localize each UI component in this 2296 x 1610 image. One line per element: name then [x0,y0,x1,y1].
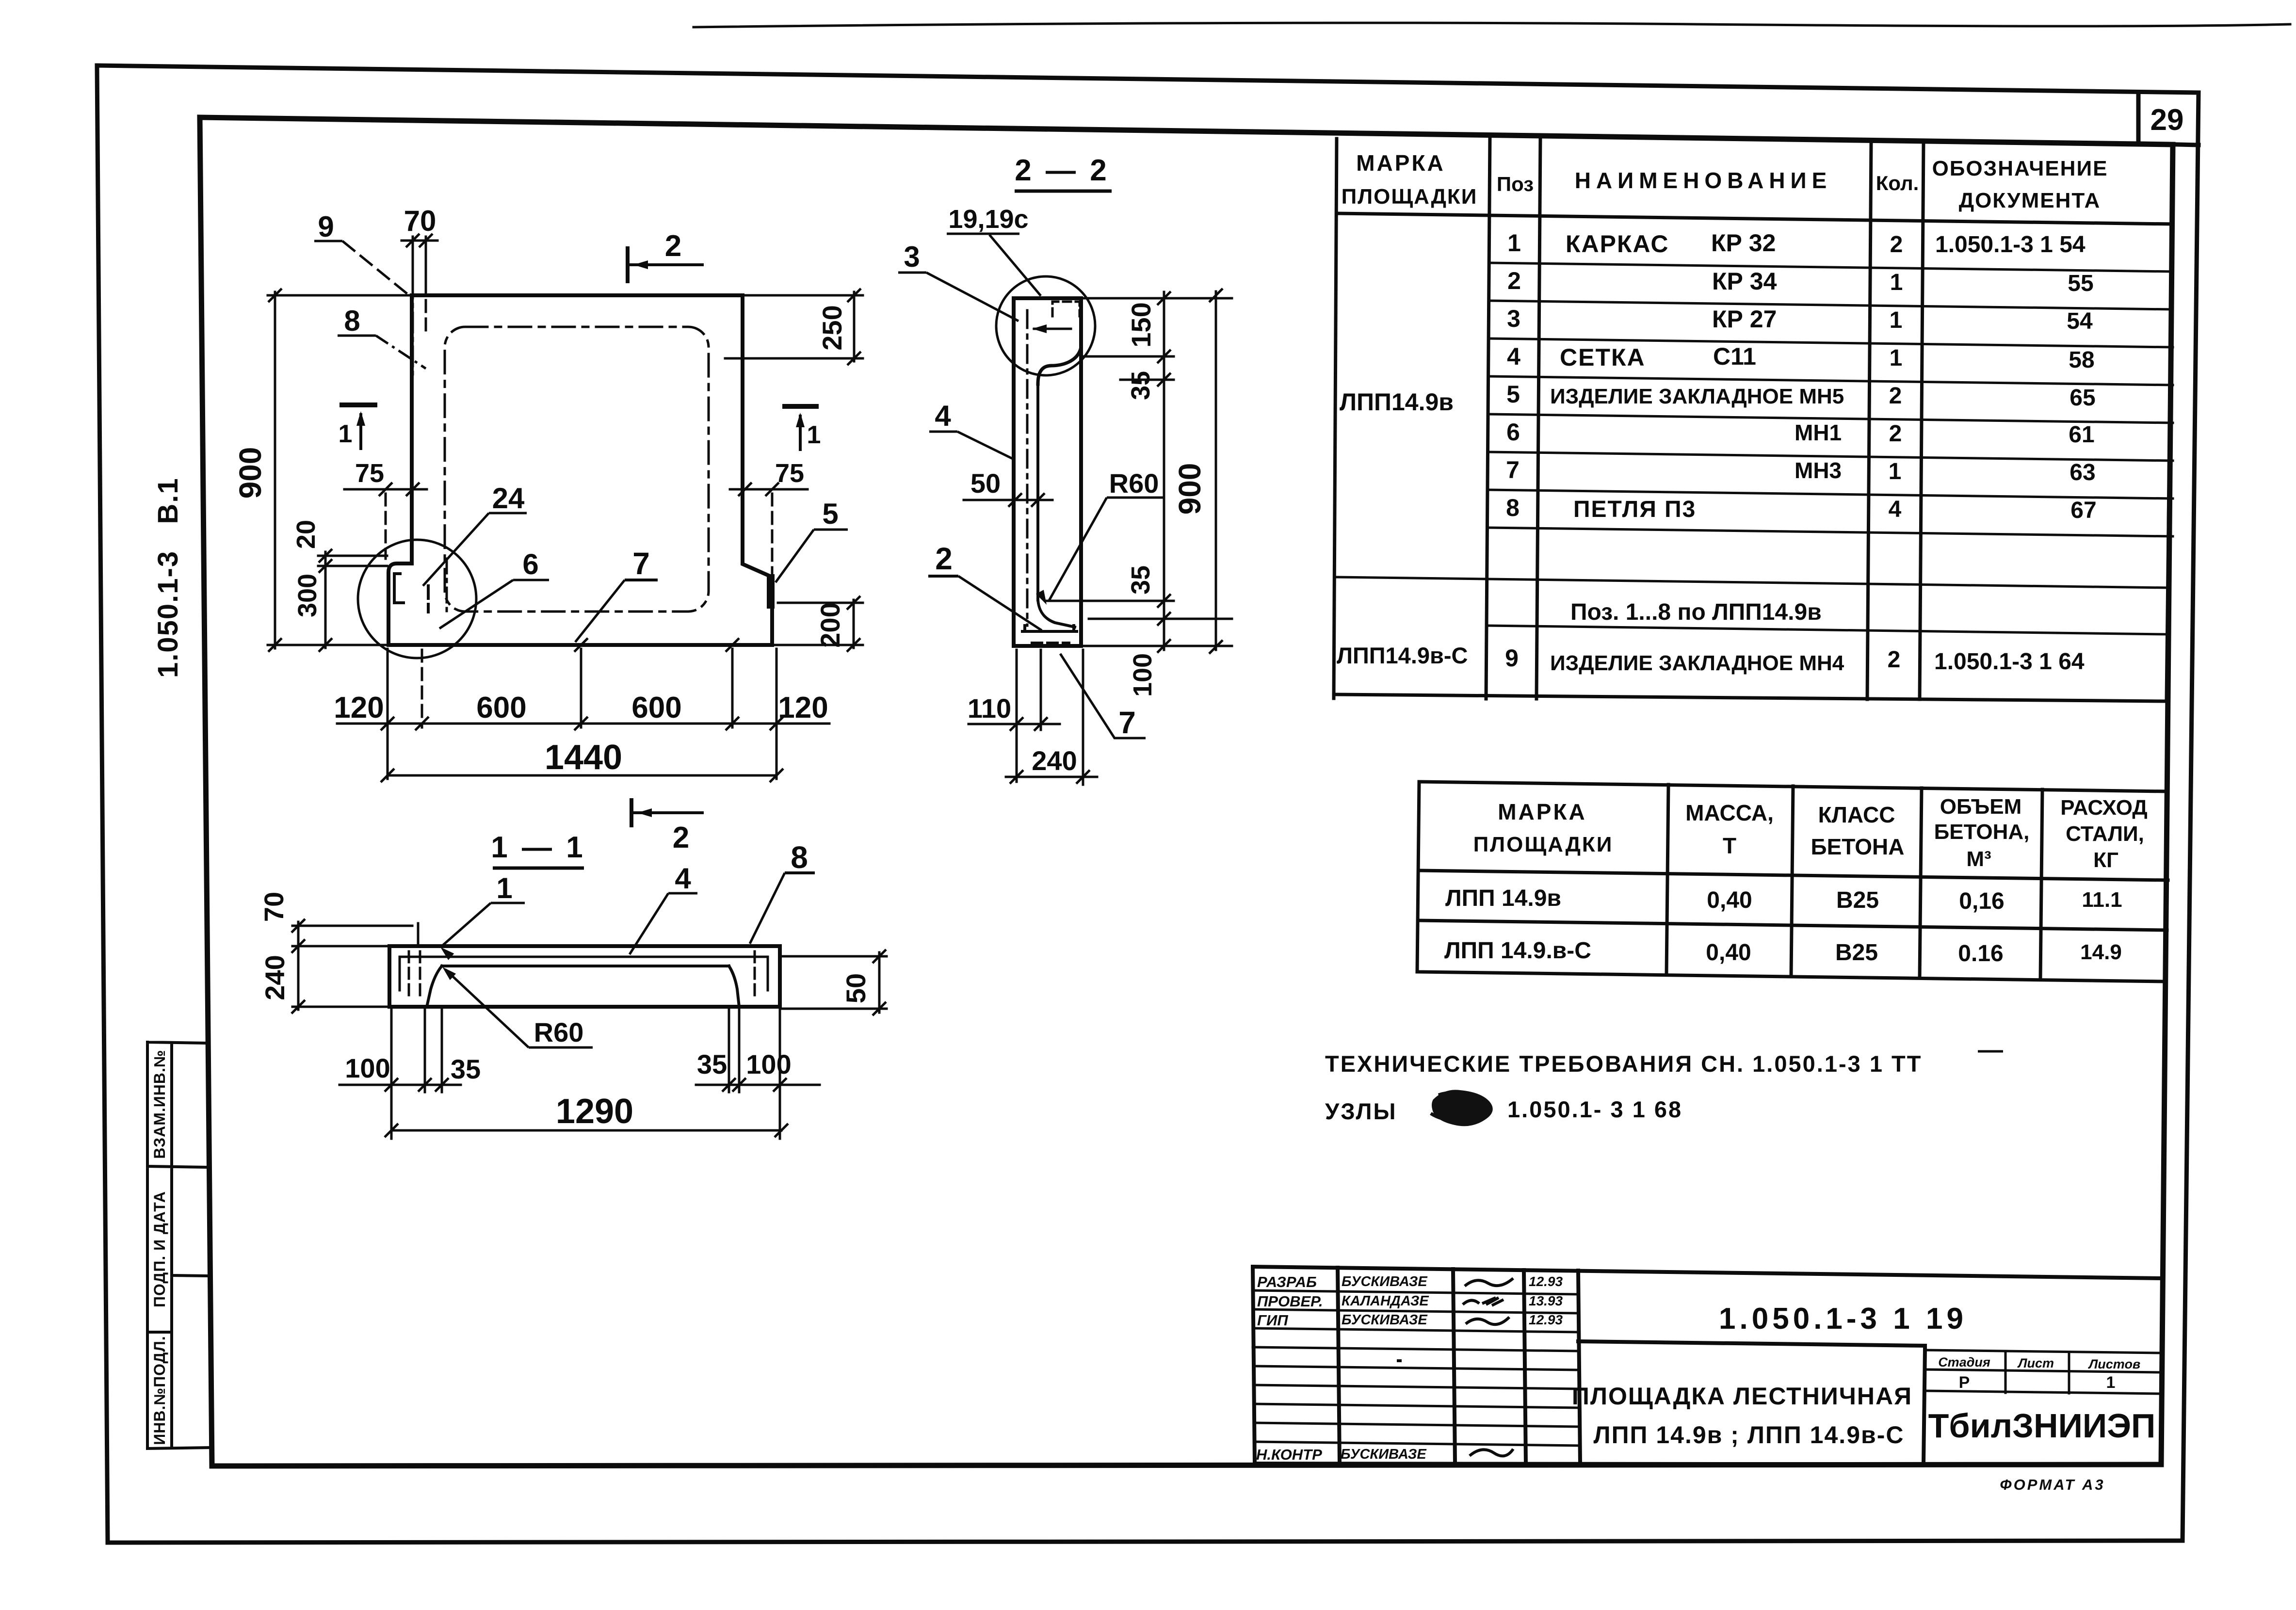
svg-text:300: 300 [293,574,322,617]
svg-text:7: 7 [632,546,650,581]
spec row line pos9 top [1487,626,2167,634]
svg-text:ПОДП. И ДАТА: ПОДП. И ДАТА [151,1191,168,1307]
svg-text:1440: 1440 [545,738,622,777]
spec table left edge [1334,139,1337,698]
svg-text:ЛПП 14.9в ; ЛПП 14.9в-С: ЛПП 14.9в ; ЛПП 14.9в-С [1594,1421,1905,1449]
svg-text:ИНВ.№ПОДЛ.: ИНВ.№ПОДЛ. [151,1336,168,1445]
svg-text:ЛПП 14.9в: ЛПП 14.9в [1445,885,1561,911]
svg-text:2: 2 [1889,383,1902,409]
thick bar item5 [767,578,775,605]
svg-text:МАССА,: МАССА, [1685,800,1774,825]
title block left edge [1253,1267,1255,1464]
dim 900 left: line and extensions [274,292,276,648]
svg-text:100: 100 [1128,653,1157,697]
svg-text:ПРОВЕР.: ПРОВЕР. [1257,1293,1323,1310]
bottom extensions [390,1009,393,1139]
svg-text:ОБОЗНАЧЕНИЕ: ОБОЗНАЧЕНИЕ [1932,157,2108,180]
svg-text:БЕТОНА,: БЕТОНА, [1934,820,2030,844]
svg-text:1: 1 [2106,1373,2116,1392]
svg-text:35: 35 [1126,371,1155,400]
fillet R60 [1038,600,1075,627]
svg-text:50: 50 [970,468,1001,499]
svg-text:М³: М³ [1966,847,1991,871]
signature table row lines [1253,1290,1578,1294]
svg-text:КАЛАНДАЗЕ: КАЛАНДАЗЕ [1342,1293,1429,1309]
dim 50 [964,499,1052,501]
svg-text:55: 55 [2068,271,2093,296]
spec table column Кол/Обозначение [1920,142,1924,699]
svg-text:ПЕТЛЯ П3: ПЕТЛЯ П3 [1573,497,1696,522]
svg-text:12.93: 12.93 [1529,1312,1563,1327]
mesh line item4 [400,957,768,990]
small dot in blank row [1397,1359,1402,1362]
svg-text:29: 29 [2150,103,2184,137]
svg-text:67: 67 [2070,498,2096,523]
svg-text:9: 9 [318,210,334,243]
svg-text:240: 240 [1032,745,1077,776]
dim 900 line [1215,291,1217,650]
section 2-2 outline [1014,298,1081,646]
svg-text:120: 120 [778,691,828,724]
svg-text:Т: Т [1723,833,1736,858]
svg-text:240: 240 [259,955,290,1000]
svg-text:ПЛОЩАДКА ЛЕСТНИЧНАЯ: ПЛОЩАДКА ЛЕСТНИЧНАЯ [1572,1383,1912,1410]
svg-text:ЛПП 14.9.в-С: ЛПП 14.9.в-С [1444,938,1591,964]
spec row line mark divider [1335,577,2168,588]
interior dash marks [427,586,430,612]
svg-text:0.16: 0.16 [1958,941,2003,966]
section 1-1 outline [389,946,780,1007]
svg-text:20: 20 [291,520,321,549]
spec table column Поз/Наименование [1536,137,1540,699]
title block outline top [1253,1267,2162,1278]
spec table bottom edge [1334,694,2167,701]
svg-text:14.9: 14.9 [2080,940,2122,964]
svg-text:СТАЛИ,: СТАЛИ, [2066,822,2144,846]
svg-text:ДОКУМЕНТА: ДОКУМЕНТА [1959,189,2101,212]
svg-text:7: 7 [1506,456,1520,483]
spec table column Наименование/Кол [1867,141,1871,699]
svg-text:200: 200 [815,602,845,647]
svg-text:НАИМЕНОВАНИЕ: НАИМЕНОВАНИЕ [1575,168,1832,193]
dim 250 right [853,292,856,361]
dims 20 / 300 left [324,552,327,648]
mesh dashed item4 [1026,310,1029,626]
svg-text:7: 7 [1118,705,1136,740]
svg-text:150: 150 [1126,302,1156,347]
section 2-2 tick marks [1157,291,1171,305]
svg-text:ТЕХНИЧЕСКИЕ ТРЕБОВАНИЯ СН.: ТЕХНИЧЕСКИЕ ТРЕБОВАНИЯ СН. 1.050.1-3 1 Т… [1325,1051,1922,1077]
svg-text:6: 6 [1506,419,1520,446]
svg-text:13.93: 13.93 [1529,1293,1563,1308]
title block divider signatures [1453,1269,1455,1463]
materials table outline [1417,782,2168,982]
spec row line 7 [1488,490,2173,499]
rib dashed reinforcement left [408,951,410,1000]
svg-text:ОБЪЕМ: ОБЪЕМ [1940,795,2021,819]
svg-text:2 — 2: 2 — 2 [1015,154,1109,187]
section mark 2 top [628,248,702,281]
svg-text:50: 50 [841,973,871,1003]
spec row line 8 [1488,528,2173,536]
dim lines 100/35 [340,1084,461,1086]
svg-text:R60: R60 [534,1017,584,1047]
svg-text:58: 58 [2069,347,2094,373]
svg-text:ТбилЗНИИЭП: ТбилЗНИИЭП [1928,1407,2156,1445]
svg-text:С11: С11 [1713,343,1756,370]
svg-text:ГИП: ГИП [1257,1312,1288,1329]
svg-text:1.050.1-3 1 64: 1.050.1-3 1 64 [1934,649,2085,675]
svg-text:8: 8 [344,305,360,337]
svg-text:1: 1 [1507,229,1521,257]
svg-text:2: 2 [665,229,681,263]
detail circle top [996,276,1095,375]
title block divider middle [1578,1271,1580,1464]
svg-text:1: 1 [1890,345,1903,371]
sheet number box 29 [2138,94,2199,145]
svg-text:54: 54 [2067,308,2093,334]
svg-text:В25: В25 [1836,887,1879,913]
svg-text:120: 120 [334,691,384,724]
svg-text:100: 100 [345,1053,390,1083]
svg-text:БУСКИВАЗЕ: БУСКИВАЗЕ [1341,1447,1427,1462]
svg-text:ЛПП14.9в-С: ЛПП14.9в-С [1337,643,1468,668]
dim 75 left [344,488,427,491]
svg-text:11.1: 11.1 [2082,888,2122,912]
svg-text:3: 3 [904,241,920,273]
protruding tick at left [417,923,420,945]
svg-text:2: 2 [1507,267,1521,294]
svg-text:8: 8 [1506,494,1520,521]
svg-text:600: 600 [476,691,526,724]
svg-text:100: 100 [746,1049,791,1079]
spec row line 5 [1488,414,2173,423]
svg-text:24: 24 [492,482,525,515]
mini table lines [1925,1350,2162,1353]
bottom embedded plate dashed [1032,642,1069,644]
svg-text:70: 70 [404,205,437,237]
signature squiggles [1463,1278,1513,1456]
spec table column Марка/Поз [1486,136,1490,699]
edge extension dashed [425,245,427,335]
svg-text:2: 2 [935,541,953,576]
svg-text:75: 75 [355,459,384,488]
hidden loop outline dashed rect [445,327,709,612]
svg-text:1: 1 [496,872,512,904]
svg-text:Кол.: Кол. [1876,172,1919,194]
svg-text:Поз: Поз [1497,173,1534,195]
short dims line [1163,292,1165,650]
spec row line 2 [1489,301,2173,309]
materials row line [1418,920,2167,930]
svg-text:0,16: 0,16 [1959,888,2004,914]
svg-text:БУСКИВАЗЕ: БУСКИВАЗЕ [1342,1274,1428,1289]
svg-text:В25: В25 [1835,940,1878,966]
svg-text:ИЗДЕЛИЕ ЗАКЛАДНОЕ МН4: ИЗДЕЛИЕ ЗАКЛАДНОЕ МН4 [1550,651,1844,675]
svg-text:СЕТКА: СЕТКА [1560,344,1646,371]
embedded detail dashed top [1052,302,1080,316]
svg-text:5: 5 [822,498,838,530]
svg-text:35: 35 [697,1049,727,1079]
svg-text:19,19с: 19,19с [948,205,1028,234]
svg-text:R60: R60 [1109,468,1159,499]
svg-text:ВЗАМ.ИНВ.№: ВЗАМ.ИНВ.№ [151,1049,168,1159]
svg-text:65: 65 [2070,385,2095,411]
svg-text:110: 110 [968,693,1011,724]
svg-text:1.050.1-3 1 19: 1.050.1-3 1 19 [1719,1302,1967,1336]
svg-text:250: 250 [817,305,847,350]
svg-text:0,40: 0,40 [1707,887,1752,913]
section mark 1 left [340,402,377,407]
bottom rebar item2 [1022,626,1077,631]
svg-text:МН3: МН3 [1795,458,1842,483]
svg-text:900: 900 [233,447,268,499]
wall inner face [1036,384,1039,600]
plan outline [388,295,772,645]
svg-text:Стадия: Стадия [1938,1355,1990,1369]
left margin stamp strip boxes [147,1042,212,1449]
svg-text:Поз. 1...8 по ЛПП14.9в: Поз. 1...8 по ЛПП14.9в [1570,599,1822,625]
svg-text:4: 4 [935,400,951,432]
spec table header separator [1337,213,2173,224]
svg-text:4: 4 [675,862,691,895]
svg-text:1.050.1-3 В.1: 1.050.1-3 В.1 [152,477,184,678]
svg-text:9: 9 [1505,644,1519,672]
svg-text:ПЛОЩАДКИ: ПЛОЩАДКИ [1473,833,1614,856]
svg-text:Р: Р [1959,1373,1970,1392]
dim 70/240 left [297,922,300,1010]
bottom dimension chain line [337,723,829,725]
svg-text:4: 4 [1507,343,1520,370]
svg-text:ИЗДЕЛИЕ ЗАКЛАДНОЕ МН5: ИЗДЕЛИЕ ЗАКЛАДНОЕ МН5 [1550,385,1844,408]
svg-text:БУСКИВАЗЕ: БУСКИВАЗЕ [1342,1312,1428,1328]
recess underside [427,966,739,1007]
materials column 4 [2040,789,2042,980]
svg-text:КЛАСС: КЛАСС [1818,802,1895,827]
svg-text:3: 3 [1507,305,1520,332]
svg-text:600: 600 [631,691,681,724]
svg-text:35: 35 [451,1054,481,1084]
svg-text:КАРКАС: КАРКАС [1566,230,1669,258]
section mark 2 bottom [631,800,702,825]
svg-text:ФОРМАТ А3: ФОРМАТ А3 [2000,1476,2105,1493]
svg-text:1: 1 [1890,270,1903,295]
svg-text:1: 1 [339,420,353,448]
svg-text:МН1: МН1 [1795,420,1842,445]
inner drawing frame [200,117,2173,1466]
wall axis dash-dot [412,245,414,374]
materials column 1 [1666,785,1668,975]
svg-text:1: 1 [807,421,821,449]
svg-text:Лист: Лист [2017,1356,2054,1370]
svg-text:ПЛОЩАДКИ: ПЛОЩАДКИ [1342,185,1478,209]
svg-text:900: 900 [1172,463,1207,515]
embedded bracket item6 [394,574,404,603]
svg-text:РАСХОД: РАСХОД [2060,796,2147,820]
spec row line 3 [1488,338,2173,347]
svg-text:2: 2 [1889,421,1902,447]
svg-text:2: 2 [673,821,689,854]
svg-text:ЛПП14.9в: ЛПП14.9в [1340,388,1454,416]
svg-text:РАЗРАБ: РАЗРАБ [1257,1273,1317,1290]
dim 1440 line [388,774,776,777]
page top scan edge [694,23,2290,27]
svg-text:УЗЛЫ: УЗЛЫ [1325,1098,1397,1124]
rib dashed reinforcement right [754,951,756,999]
title block bottom edge [1255,1464,2161,1465]
svg-text:КГ: КГ [2093,848,2118,872]
ticks section 1-1 [291,919,305,933]
right dims extension lines [1083,297,1232,300]
dim 75 right [730,488,808,491]
materials column 2 [1791,786,1793,976]
svg-text:4: 4 [1889,497,1902,522]
svg-text:МАРКА: МАРКА [1356,150,1445,176]
svg-text:61: 61 [2069,422,2094,448]
svg-text:12.93: 12.93 [1529,1274,1563,1289]
dim 70 top [402,240,437,242]
svg-text:2: 2 [1888,647,1901,673]
title block divider dates [1524,1270,1526,1464]
svg-text:5: 5 [1506,381,1520,408]
dim 200 right [853,600,855,648]
svg-text:8: 8 [791,840,808,875]
svg-text:КР 32: КР 32 [1711,229,1776,257]
leader bar inside circle [1034,328,1071,330]
svg-text:1290: 1290 [556,1092,633,1131]
spec row line 6 [1488,452,2173,461]
svg-text:1 — 1: 1 — 1 [491,831,585,864]
dims 110 and 240 bottom [1016,650,1018,782]
dimension tick marks plan [268,289,282,302]
svg-text:6: 6 [522,548,538,580]
materials column 3 [1920,788,1922,978]
svg-text:70: 70 [259,892,289,922]
svg-text:2: 2 [1890,232,1903,258]
svg-text:35: 35 [1126,565,1155,595]
svg-text:75: 75 [775,459,804,488]
materials header line [1419,870,2168,880]
svg-text:63: 63 [2070,460,2095,485]
svg-text:1.050.1- 3 1 68: 1.050.1- 3 1 68 [1507,1096,1682,1122]
title block divider right section [1924,1349,1925,1464]
svg-text:Н.КОНТР: Н.КОНТР [1256,1446,1322,1463]
svg-text:БЕТОНА: БЕТОНА [1811,834,1905,859]
svg-text:Листов: Листов [2088,1357,2141,1371]
ledge underside curve [1038,347,1081,384]
title block line under designation [1578,1341,1925,1346]
svg-text:КР 27: КР 27 [1712,306,1777,333]
dim 50 right [878,952,881,1013]
dim 1290 [391,1129,781,1132]
detail circle 24 [358,540,476,658]
svg-text:0,40: 0,40 [1706,940,1751,966]
svg-text:1.050.1-3 1 54: 1.050.1-3 1 54 [1935,232,2086,258]
spec table right edge [2167,145,2173,699]
svg-text:КР 34: КР 34 [1712,268,1777,295]
scribble blob over word [1434,1092,1491,1124]
spec row line 4 [1488,376,2173,385]
section mark 1 right [782,404,819,409]
svg-text:1: 1 [1890,307,1903,333]
spec row line 1 [1489,263,2173,272]
small overline near 1 ТТ [1978,1050,2003,1053]
title block divider names [1338,1268,1340,1463]
svg-text:МАРКА: МАРКА [1498,799,1587,824]
svg-text:1: 1 [1889,459,1902,484]
